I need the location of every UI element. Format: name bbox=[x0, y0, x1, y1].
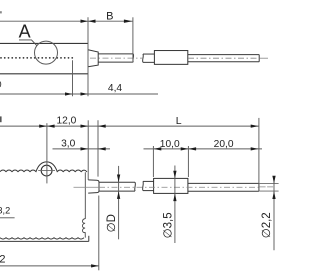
svg-text:2: 2 bbox=[0, 253, 6, 265]
svg-text:∅2,2: ∅2,2 bbox=[261, 212, 273, 238]
svg-text:L: L bbox=[176, 115, 182, 127]
svg-text:4,4: 4,4 bbox=[108, 83, 122, 94]
svg-text:∅D: ∅D bbox=[106, 214, 118, 232]
svg-text:0: 0 bbox=[0, 79, 2, 89]
svg-text:3,0: 3,0 bbox=[61, 138, 75, 149]
svg-text:A: A bbox=[19, 21, 31, 41]
svg-text:20,0: 20,0 bbox=[214, 139, 234, 150]
svg-text:B: B bbox=[106, 10, 113, 22]
svg-text:∅3,5: ∅3,5 bbox=[163, 212, 175, 238]
svg-text:12,0: 12,0 bbox=[56, 116, 76, 127]
svg-text:3,2: 3,2 bbox=[0, 206, 10, 216]
svg-text:10,0: 10,0 bbox=[160, 139, 180, 150]
